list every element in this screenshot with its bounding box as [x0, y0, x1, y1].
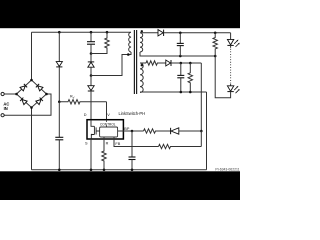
svg-text:D: D: [84, 113, 87, 117]
wire output diode to output node: [164, 32, 231, 34]
wire V pin internal stub: [106, 120, 108, 127]
wire BP pin: [118, 130, 144, 132]
node top rail / V diode branch: [58, 31, 61, 34]
bridge diode bottom-right: [36, 98, 43, 105]
resistor bias bleed: [188, 63, 192, 92]
node primary polarity dot: [127, 53, 130, 56]
svg-text:BP: BP: [124, 127, 130, 131]
wire bias plus riser down: [200, 63, 202, 131]
wire FB pin: [114, 137, 159, 147]
transformer T1 bias winding: [140, 63, 143, 93]
node clamp cap top: [90, 31, 93, 34]
capacitor bias filter: [180, 63, 182, 75]
svg-text:LinkSwitch-PH: LinkSwitch-PH: [119, 111, 146, 116]
wire secondary top to output diode: [140, 32, 158, 34]
transformer T1 secondary winding: [140, 33, 143, 52]
bridge diode bottom-left: [20, 98, 27, 105]
wire V cap to ground rail: [58, 140, 60, 170]
node bias return res: [189, 91, 192, 94]
LED D2: [227, 86, 233, 91]
node mid rail right: [214, 55, 217, 58]
capacitor V-sense filter: [55, 136, 63, 138]
wire bias diode to riser: [171, 62, 201, 64]
IC U1 LinkSwitch-PH: [87, 120, 123, 139]
resistor BP supply: [144, 129, 171, 133]
capacitor clamp: [87, 41, 95, 43]
bottom black bar: [0, 171, 240, 200]
diode bias rectifier (pointing right): [166, 60, 171, 66]
svg-text:CONTROL: CONTROL: [100, 122, 116, 126]
wire FB riser to BP junction: [200, 131, 202, 147]
wire secondary bottom to mid rail: [140, 52, 215, 56]
capacitor output: [179, 33, 181, 44]
wire top rail: [32, 31, 132, 33]
resistor R reference: [102, 137, 106, 170]
wire clamp cap to node: [90, 44, 92, 53]
node output cap bottom: [179, 55, 182, 58]
wire ground bottom rail: [32, 169, 207, 171]
resistor RV: [59, 100, 106, 104]
node bridge top: [30, 79, 33, 82]
node BP cap ground: [131, 169, 134, 172]
svg-text:V: V: [107, 113, 110, 117]
svg-text:PI-6343-062211: PI-6343-062211: [215, 167, 239, 171]
wire clamp diode to drain node: [90, 67, 92, 75]
wire bridge bottom to ground rail: [31, 108, 33, 170]
node output plus: [179, 32, 182, 35]
node drain: [90, 74, 93, 77]
wire S pin to ground: [90, 139, 92, 170]
terminal AC line 1: [1, 92, 4, 95]
node V cap ground: [58, 169, 61, 172]
node bridge bottom: [30, 106, 33, 109]
node bias polarity dot: [141, 64, 143, 66]
bridge diode top-right: [36, 84, 43, 91]
capacitor BP bypass: [131, 131, 133, 157]
diode series drain (pointing down): [90, 76, 92, 86]
diode output rectifier (pointing right): [158, 30, 163, 36]
wire output to LED string: [230, 33, 232, 40]
wire BP diode to junction: [179, 130, 202, 132]
svg-text:FB: FB: [115, 142, 120, 146]
node bias return cap: [180, 91, 183, 94]
diode clamp (pointing up): [90, 54, 92, 62]
svg-text:R: R: [106, 142, 109, 146]
node R ground: [103, 169, 106, 172]
wire series diode to D pin: [90, 91, 92, 120]
controller block: [100, 127, 118, 137]
node bias plus cap: [180, 62, 183, 65]
node bias plus res: [189, 62, 192, 65]
wire LED string return: [215, 56, 230, 98]
wire AC line 1 to bridge left node: [4, 93, 16, 95]
wire LED string dashed continuation: [230, 45, 232, 47]
resistor clamp: [91, 32, 109, 53]
transistor Q internal MOSFET: [91, 120, 100, 139]
wire V node down to cap: [58, 102, 60, 138]
node bridge left: [15, 93, 18, 96]
node clamp RC junction: [90, 52, 93, 55]
node load resistor top: [214, 32, 217, 35]
node BP FB junction: [200, 130, 203, 133]
node clamp res top: [106, 31, 109, 34]
node bridge right: [45, 93, 48, 96]
node BP cap: [131, 130, 134, 133]
wire bias return riser: [206, 92, 208, 170]
resistor bias: [146, 61, 166, 65]
bridge rectifier arms: [17, 80, 47, 108]
terminal AC line 2: [1, 114, 4, 117]
node S ground: [90, 169, 93, 172]
bridge diode top-left: [20, 84, 27, 91]
diode D V-sense (pointing down): [56, 62, 62, 67]
resistor load: [213, 33, 217, 56]
transformer T1 primary winding: [129, 32, 131, 52]
LED D1: [227, 39, 233, 45]
wire V diode to node: [58, 67, 60, 102]
wire V diode branch upper: [58, 32, 60, 61]
wire bias winding top row: [140, 62, 146, 64]
wire clamp cap lead: [90, 32, 92, 42]
top black bar: [0, 0, 240, 28]
wire bias return row: [140, 91, 207, 93]
svg-text:IN: IN: [4, 106, 8, 111]
wire RV to V pin: [106, 102, 108, 120]
wire bridge top to rail: [31, 32, 33, 80]
node secondary polarity dot: [141, 30, 143, 32]
node V sense: [58, 101, 61, 104]
diode BP supply (pointing left): [170, 128, 172, 134]
resistor FB: [159, 144, 202, 148]
transformer T1 core: [133, 30, 135, 94]
wire AC line 2 to bridge right node: [4, 94, 51, 115]
wire drain node to primary bottom: [91, 52, 131, 76]
